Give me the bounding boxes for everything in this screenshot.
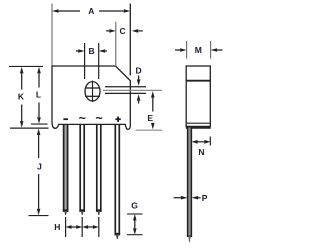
svg-text:G: G [131, 201, 138, 211]
device body (front view) [52, 66, 130, 129]
dim E arrow up [152, 98, 154, 112]
dim N arrow left [198, 141, 201, 143]
dim M left extension line [186, 41, 188, 59]
dim L arrow up [38, 73, 40, 87]
side body chamfer line [186, 80, 210, 82]
dim E arrow down [152, 123, 154, 124]
dim P arrow right [198, 197, 201, 199]
tab center line [103, 89, 162, 91]
tab top line [105, 86, 146, 88]
dim J bottom tick [29, 215, 49, 217]
dim B arrow left [76, 50, 78, 52]
hole lower chord [85, 95, 100, 97]
lead 1 (minus) [64, 124, 68, 211]
dim N arrow right [200, 141, 204, 143]
svg-text:E: E [147, 113, 153, 123]
K J shared tick [10, 127, 49, 129]
svg-text:P: P [202, 193, 208, 203]
dim A right extension line [129, 4, 131, 76]
side body foot line [186, 122, 210, 124]
hole vertical axis [92, 81, 94, 102]
dim D arrow down [138, 76, 140, 80]
svg-text:B: B [89, 46, 95, 56]
dim H tick 2 [81, 217, 83, 237]
svg-text:C: C [120, 26, 126, 36]
dim H arrows 2-3 [88, 226, 90, 228]
dim A arrow right [99, 10, 124, 12]
svg-text:N: N [198, 147, 204, 157]
dim K arrow up [21, 73, 23, 89]
dim A arrow left [59, 10, 81, 12]
dim H arrows 1-2 [72, 226, 74, 228]
dim G bottom tick [127, 234, 143, 236]
dim C left extension line [115, 22, 117, 66]
plus polarity mark [115, 118, 120, 120]
lead 4 (plus, long) [115, 124, 119, 234]
dim H tick 3 [98, 217, 100, 237]
svg-text:J: J [37, 162, 42, 172]
dim C arrow left [106, 30, 109, 32]
dim L bottom tick [31, 123, 48, 125]
K L top extension tick [9, 65, 43, 67]
side lead [188, 128, 192, 237]
dim L arrow down [38, 103, 40, 118]
tab bottom line [105, 92, 146, 94]
lead 3 (ac) [97, 124, 101, 211]
svg-text:A: A [88, 6, 94, 16]
lead 2 (ac) [80, 124, 84, 211]
dim G arrow down [134, 224, 136, 228]
svg-text:H: H [54, 222, 60, 232]
dim E bottom tick [136, 129, 162, 131]
dim M arrow left [175, 49, 180, 51]
dim M right extension line [210, 41, 212, 59]
dim P arrow left [174, 197, 181, 199]
hole upper chord [85, 87, 100, 89]
minus polarity mark [63, 118, 68, 120]
device body (side view) [186, 66, 210, 126]
dim G top tick [127, 213, 143, 215]
svg-text:~: ~ [95, 112, 102, 126]
side body bottom bar [186, 126, 211, 128]
dim N tick [209, 137, 211, 146]
svg-text:M: M [195, 45, 202, 55]
dim D arrow up [138, 101, 140, 104]
dim B arrow right [105, 50, 107, 52]
dim C arrow right [138, 30, 143, 32]
dim J arrow down [38, 174, 40, 209]
dim M arrow right [217, 49, 222, 51]
svg-text:D: D [136, 65, 142, 75]
dim B left extension line [84, 43, 86, 79]
svg-text:~: ~ [79, 112, 86, 126]
svg-text:L: L [36, 90, 41, 100]
mounting hole [85, 82, 100, 101]
dim G arrow up [134, 221, 136, 225]
dim A left extension line [51, 4, 53, 66]
svg-text:K: K [18, 92, 25, 102]
dim B right extension line [98, 43, 100, 79]
dim K arrow down [21, 105, 23, 122]
dim J arrow up [38, 135, 40, 158]
dim H tick 1 [65, 217, 67, 237]
